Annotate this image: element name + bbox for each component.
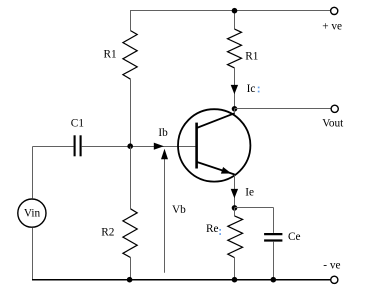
- node Re bottom junction: [232, 277, 238, 283]
- wire base rail left of C1: [33, 146, 74, 148]
- terminal -ve: [331, 276, 338, 283]
- node Vout junction: [232, 106, 238, 112]
- svg-text:R1: R1: [104, 49, 117, 61]
- resistor Re: [228, 216, 243, 258]
- wire collector lead: [234, 109, 236, 114]
- wire R2 top lead: [130, 147, 132, 209]
- wire emitter node to Ce: [235, 207, 274, 209]
- svg-text:+ ve: + ve: [322, 20, 342, 32]
- svg-text:Ce: Ce: [288, 231, 301, 243]
- svg-text:Vout: Vout: [322, 118, 344, 130]
- arrow Vb (up): [164, 153, 166, 273]
- wire bottom rail: [32, 279, 331, 281]
- label Re colon artifact: [219, 229, 221, 231]
- wire Vin to bottom rail: [32, 228, 34, 280]
- node emitter junction: [232, 205, 238, 211]
- wire base rail C1 to transistor: [82, 146, 197, 148]
- svg-text:- ve: - ve: [323, 259, 340, 271]
- resistor R2: [123, 209, 137, 258]
- wire Vout rail: [235, 108, 332, 110]
- svg-text:Ic: Ic: [247, 83, 256, 95]
- svg-text:C1: C1: [71, 117, 84, 129]
- node Ce bottom junction: [271, 277, 277, 283]
- wire R1 left bottom lead: [130, 79, 132, 146]
- wire Ce bottom lead: [273, 242, 275, 280]
- svg-text:Ie: Ie: [245, 187, 254, 199]
- node top rail junction: [232, 8, 238, 14]
- svg-text:R1: R1: [245, 50, 258, 62]
- terminal +ve: [331, 7, 338, 14]
- wire R1 right top lead: [234, 11, 236, 30]
- transistor Q1 body: [178, 109, 250, 181]
- capacitor Ce: [264, 233, 282, 235]
- wire left vertical to Vin: [32, 147, 34, 199]
- wire Re bottom lead: [234, 258, 236, 280]
- resistor R1 (left): [123, 31, 137, 80]
- wire emitter lead with Ie arrow: [234, 175, 236, 208]
- arrow Ic: [231, 85, 238, 94]
- transistor Q1 emitter arrowhead: [221, 167, 232, 174]
- svg-text:Vb: Vb: [172, 204, 186, 216]
- arrow Ib: [154, 143, 164, 150]
- capacitor C1: [74, 135, 76, 156]
- wire top rail: [130, 10, 331, 12]
- svg-text:Vin: Vin: [24, 207, 41, 219]
- resistor R1 (right): [228, 29, 242, 68]
- wire Re top lead: [234, 208, 236, 216]
- label Ic colon artifact: [258, 87, 260, 89]
- transistor Q1 collector stroke: [197, 113, 235, 128]
- svg-text:Ib: Ib: [158, 127, 168, 139]
- wire R2 bottom lead: [130, 258, 132, 280]
- wire R1 right bottom lead with Ic arrow: [234, 68, 236, 109]
- svg-text:R2: R2: [101, 227, 115, 239]
- svg-text:Re: Re: [206, 223, 219, 235]
- transistor Q1 base bar: [195, 123, 198, 169]
- arrow Ie: [231, 189, 238, 198]
- node R2 bottom junction: [127, 277, 133, 283]
- terminal Vout: [331, 105, 338, 112]
- wire R1 left top lead: [130, 11, 132, 31]
- node base junction: [127, 143, 133, 149]
- transistor Q1 emitter stroke: [197, 162, 235, 175]
- wire Ce top lead: [273, 208, 275, 233]
- source Vin: [18, 199, 46, 227]
